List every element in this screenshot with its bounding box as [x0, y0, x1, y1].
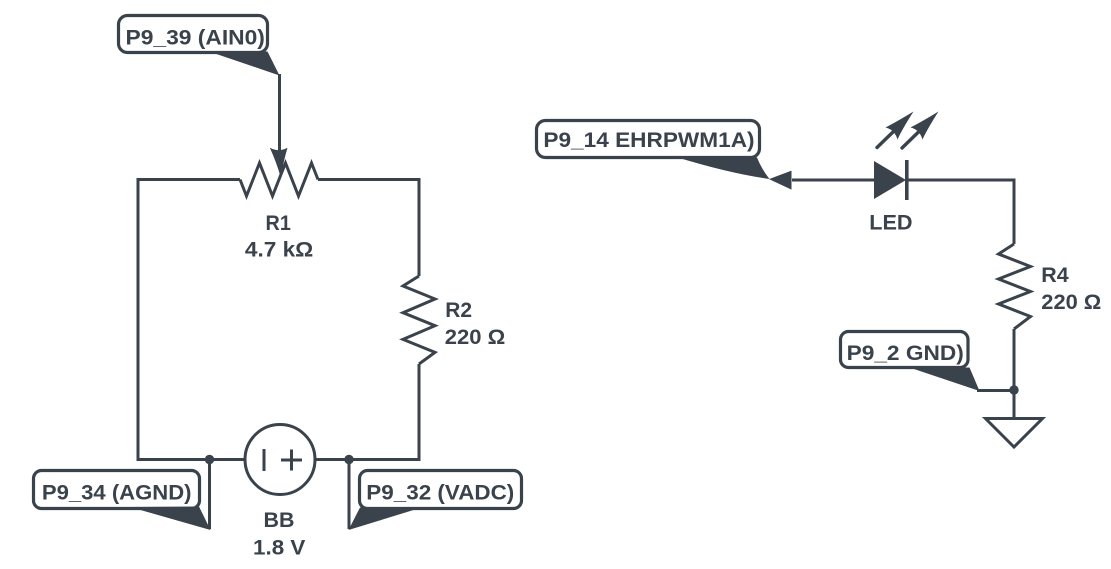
wire from LED to corner	[906, 179, 1016, 182]
wire arrow head pointing left	[769, 171, 792, 190]
wire left vertical	[137, 179, 140, 459]
svg-text:P9_39 (AIN0): P9_39 (AIN0)	[126, 27, 265, 50]
wire from arrow to LED	[792, 179, 874, 182]
callout P9_14 EHRPWM1A box	[537, 121, 760, 158]
svg-text:R2: R2	[445, 299, 472, 322]
callout P9_34 (AGND) box	[34, 471, 200, 509]
junction node above ground	[1009, 385, 1018, 394]
callout stub P9_34	[208, 460, 211, 529]
LED emission arrow 1 head	[886, 112, 914, 140]
junction node bottom-right	[344, 455, 353, 464]
svg-text:LED: LED	[869, 211, 912, 234]
svg-text:4.7 kΩ: 4.7 kΩ	[245, 238, 313, 261]
callout P9_34 pointer wedge	[130, 507, 211, 531]
ground symbol triangle	[986, 419, 1043, 448]
wire right vertical upper	[418, 178, 421, 276]
LED emission arrow 2 shaft	[902, 132, 919, 149]
callout P9_32 (VADC) box	[360, 471, 522, 509]
wire right vertical lower	[418, 364, 421, 459]
wire bottom-left horizontal	[137, 458, 247, 461]
voltage source plus sign	[281, 450, 302, 471]
wire top-left horizontal	[137, 178, 241, 181]
callout stub P9_32	[348, 460, 351, 529]
svg-text:R1: R1	[266, 212, 292, 235]
callout P9_14 pointer wedge	[676, 157, 770, 179]
callout P9_2 GND box	[841, 332, 969, 368]
LED cathode bar	[905, 160, 909, 200]
svg-text:P9_34 (AGND): P9_34 (AGND)	[42, 482, 192, 505]
callout P9_32 pointer wedge	[349, 508, 421, 531]
resistor R4 zigzag	[999, 244, 1031, 329]
wire top-right horizontal	[318, 178, 421, 181]
svg-text:220 Ω: 220 Ω	[1041, 291, 1101, 314]
callout P9_39 (AIN0) box	[119, 16, 268, 53]
callout P9_39 pointer wedge	[212, 52, 280, 76]
callout P9_2 pointer wedge	[911, 368, 980, 392]
wire node to ground	[1013, 390, 1016, 418]
junction node bottom-left	[205, 455, 214, 464]
svg-text:P9_32 (VADC): P9_32 (VADC)	[366, 482, 514, 505]
wiper arrow shaft	[278, 74, 281, 152]
wire right circuit vertical upper	[1013, 179, 1016, 245]
svg-text:1.8 V: 1.8 V	[253, 537, 305, 560]
voltage source minus terminal bar	[263, 449, 266, 471]
svg-text:R4: R4	[1041, 264, 1069, 287]
callout stub P9_2	[977, 389, 1014, 392]
LED emission arrow 1 shaft	[877, 131, 894, 148]
svg-text:P9_2 GND): P9_2 GND)	[847, 342, 964, 365]
svg-text:P9_14 EHRPWM1A): P9_14 EHRPWM1A)	[543, 129, 754, 152]
wire R4 to node	[1013, 329, 1016, 390]
svg-text:BB: BB	[264, 509, 295, 532]
resistor R2 zigzag	[403, 276, 435, 364]
LED emission arrow 2 head	[911, 112, 939, 140]
resistor R1 zigzag	[240, 163, 318, 196]
voltage source BB circle	[245, 425, 315, 495]
svg-text:220 Ω: 220 Ω	[445, 326, 506, 349]
wire bottom-right horizontal	[314, 458, 421, 461]
LED diode triangle	[874, 161, 906, 199]
wiper arrow head	[270, 148, 288, 178]
